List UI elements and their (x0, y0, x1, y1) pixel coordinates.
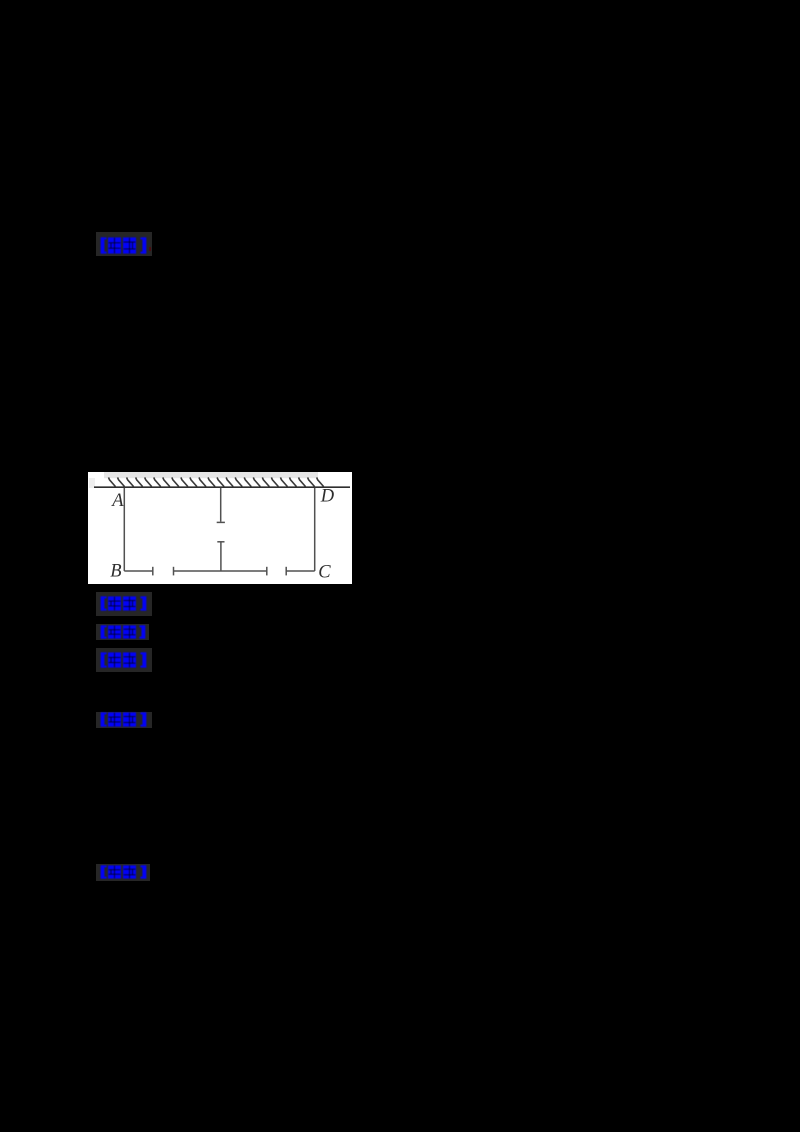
ceiling hatching (109, 477, 324, 486)
label chip 6 (【点评】) (96, 864, 150, 881)
blue tag text 6 (100, 865, 147, 879)
tiny red dot after chip 1 (149, 247, 152, 251)
right vertical D-C (314, 488, 316, 571)
bottom line y=99 (124, 570, 153, 572)
svg-text:C: C (318, 562, 331, 582)
labels (110, 486, 334, 582)
blue tag text 3 (100, 625, 146, 639)
ceiling line (94, 486, 350, 488)
gray scan shadow band at top (104, 472, 318, 478)
wires / segments (124, 488, 314, 576)
label chip 2 (【考点】) (96, 592, 152, 616)
svg-text:D: D (320, 486, 335, 506)
blue tag text 4 (100, 652, 147, 668)
svg-text:B: B (110, 561, 121, 581)
label chip 4 (【分析】) (96, 648, 152, 672)
label chip 3 (【专题】) (96, 624, 149, 640)
figure image (white scan of hanging frame ABCD) (88, 472, 352, 584)
white background of scanned figure (88, 472, 352, 584)
svg-text:A: A (110, 491, 124, 511)
label chip 5 (【解答】) (96, 712, 152, 728)
blue tag text 5 (100, 712, 147, 727)
middle lower vertical (217, 541, 224, 543)
middle upper vertical (220, 488, 222, 522)
blue tag text 1 (100, 237, 147, 254)
blue tag text 2 (100, 596, 147, 611)
left vertical A-B (123, 488, 125, 571)
label chip 1 (【答案】 blue tag) (96, 232, 152, 256)
